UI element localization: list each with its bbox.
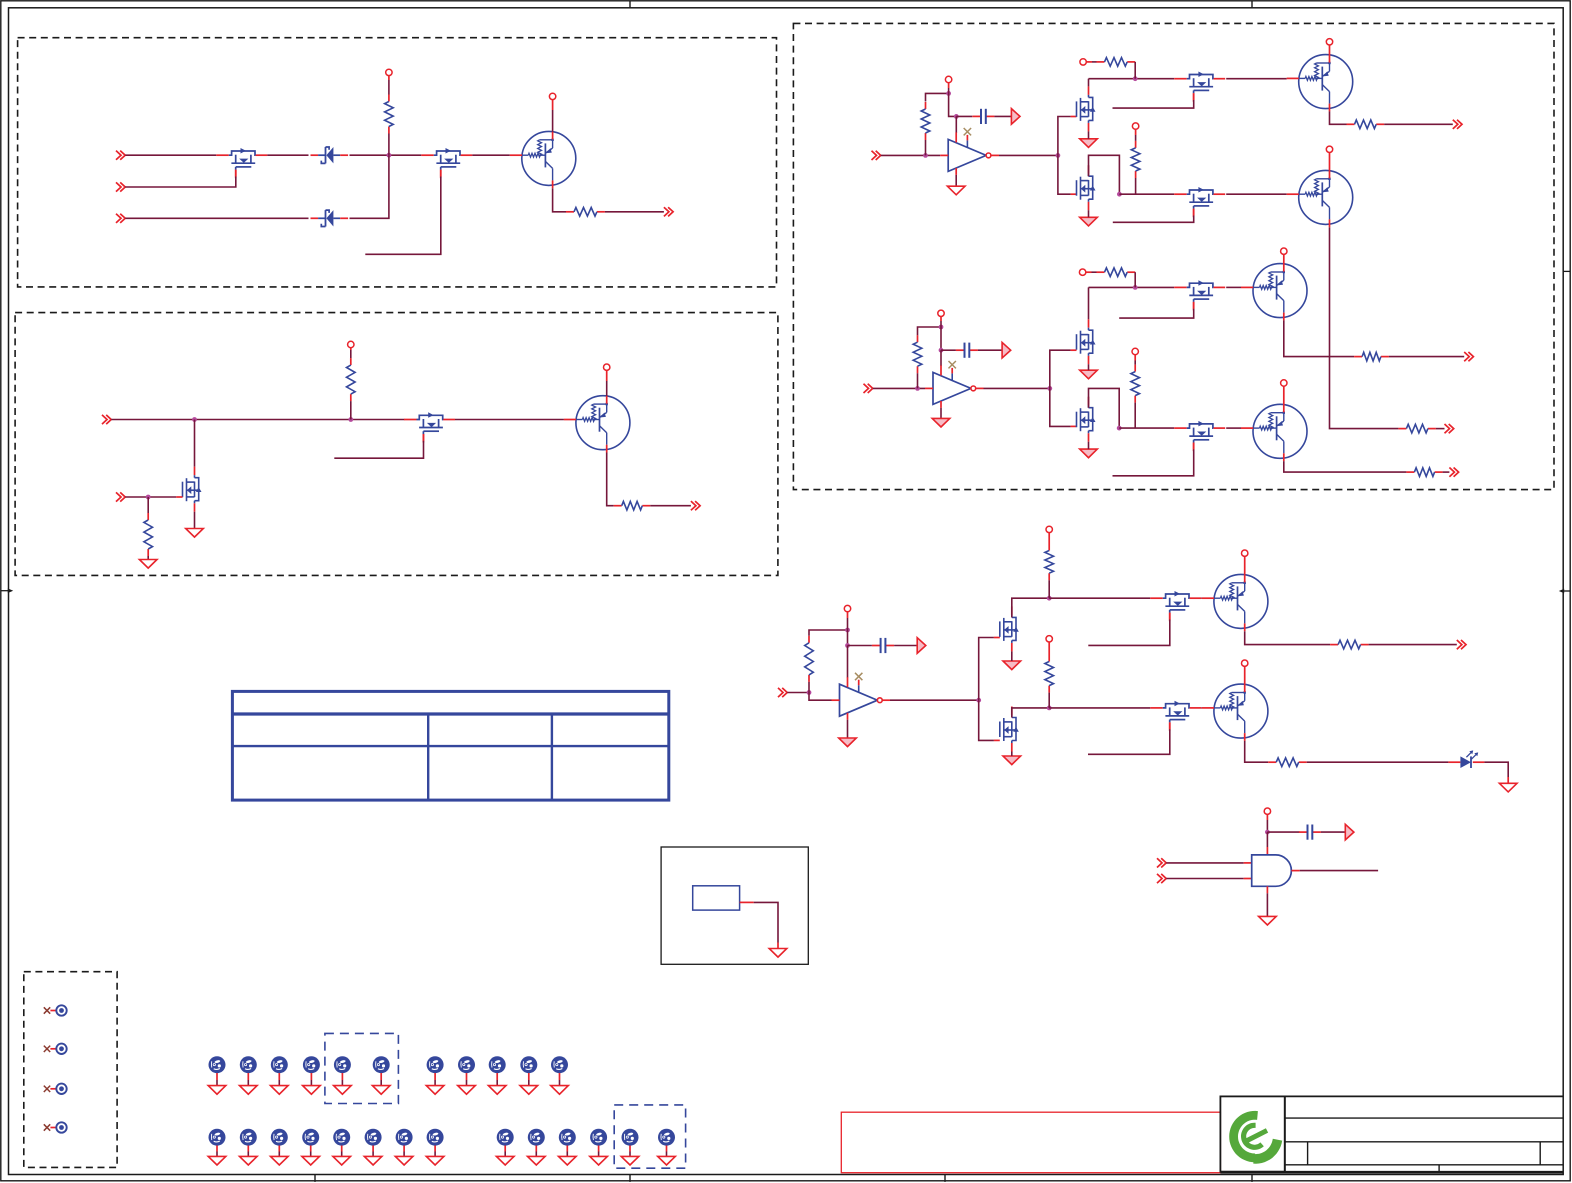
mounting hole MH11: [551, 1056, 568, 1073]
output chevron J2-A: [664, 207, 669, 216]
mounting hole MH17: [365, 1129, 382, 1146]
wire: [1134, 272, 1136, 287]
ground: [1259, 916, 1277, 925]
power arrow VCC: [1011, 109, 1020, 125]
LED D3: [1448, 761, 1460, 763]
table column separator 2: [551, 714, 553, 800]
mounting hole MH4: [303, 1056, 320, 1073]
output chevron J6-A: [1453, 120, 1458, 129]
wire: [1226, 78, 1287, 80]
wire Q8 collector: [1245, 741, 1269, 762]
ground: [496, 1156, 514, 1165]
wire: [918, 327, 942, 335]
mounting hole MH25: [658, 1129, 675, 1146]
ground: [186, 529, 204, 538]
ground: [1080, 370, 1098, 379]
wire M7 gate path: [1058, 155, 1071, 194]
wire: [740, 901, 754, 903]
wire: [808, 682, 810, 693]
node junction: [939, 325, 944, 330]
transistor M1: [216, 154, 229, 156]
wire: [787, 692, 809, 694]
capacitor C2: [941, 349, 956, 351]
wire: [1134, 403, 1136, 429]
wire: [925, 140, 927, 155]
wire: [553, 188, 566, 212]
wire: [552, 110, 554, 132]
node junction: [807, 690, 812, 695]
table column separator 1: [427, 714, 429, 800]
component box outline: [661, 847, 808, 964]
ground: [334, 1086, 352, 1095]
resistor R19: [1330, 644, 1338, 646]
transistor M11: [1088, 397, 1090, 406]
ground: [240, 1086, 258, 1095]
power terminal VCC17: [1046, 636, 1052, 642]
ground: [520, 1086, 538, 1095]
power arrow VCC: [917, 638, 926, 654]
wire: [1011, 752, 1013, 757]
transistor M15: [1150, 707, 1163, 709]
node junction: [192, 417, 197, 422]
output chevron J6-D: [1449, 468, 1454, 477]
dashed box block 3: [793, 23, 1554, 489]
AND gate U4: [1252, 855, 1292, 886]
capacitor C3: [848, 645, 872, 647]
testpoint TP4: [44, 1124, 50, 1130]
node junction: [923, 153, 928, 158]
power terminal VCC16: [1046, 526, 1052, 532]
transistor Q6 digital PNP: [1253, 404, 1307, 458]
mounting hole MH18: [396, 1129, 413, 1146]
input chevron J1-C: [116, 214, 121, 223]
wire: [1088, 364, 1090, 370]
output chevron J6-C: [1464, 352, 1469, 361]
wire: [1226, 286, 1241, 288]
frame tick top 1: [629, 1, 631, 8]
wire: [1135, 178, 1137, 194]
transistor M2: [421, 154, 434, 156]
mounting hole MH10: [520, 1056, 537, 1073]
input chevron J9-B: [1157, 874, 1162, 883]
node junction: [954, 114, 959, 119]
mounting hole MH24: [622, 1129, 639, 1146]
frame fold mark right: [1563, 270, 1570, 272]
wire: [1200, 707, 1203, 709]
input chevron J3-B: [116, 492, 121, 501]
mounting hole MH15: [302, 1129, 319, 1146]
resistor R16: [808, 636, 810, 643]
wire: [605, 211, 664, 213]
wire M1 gate: [235, 170, 237, 177]
wire M9 gate path: [1050, 350, 1071, 388]
wire: [1088, 79, 1090, 87]
frame centering arrow left: [1, 590, 10, 592]
ground: [302, 1156, 320, 1165]
mounting hole MH23: [590, 1129, 607, 1146]
frame centering arrow right: [1563, 590, 1571, 592]
buffer U1: [948, 139, 986, 171]
wire: [926, 93, 949, 101]
wire: [1330, 111, 1347, 124]
table row separator: [232, 745, 668, 747]
ground: [932, 418, 950, 427]
power arrow VCC: [1002, 342, 1011, 358]
power terminal VCC15: [844, 605, 850, 611]
ground: [395, 1156, 413, 1165]
wire: [1134, 361, 1136, 365]
wire M3 gate: [176, 496, 182, 498]
dashed box block 1: [18, 38, 777, 287]
wire: [650, 505, 691, 507]
transistor Q3 digital PNP: [1299, 55, 1353, 109]
power terminal VCC14: [1281, 380, 1287, 386]
wire M11 gate path: [1050, 388, 1071, 426]
node junction: [946, 91, 951, 96]
resistor R2: [566, 211, 574, 213]
wire M5 gate path: [1058, 117, 1071, 156]
frame tick bottom 1: [314, 1175, 316, 1182]
power terminal VCC19: [1242, 660, 1248, 666]
wire M16 gate path: [979, 700, 994, 740]
wire: [125, 496, 176, 498]
wire mid rail 2: [1119, 427, 1174, 429]
wire M13 gate path: [979, 638, 994, 701]
transistor Q1 digital PNP: [522, 131, 576, 185]
transistor Q8 digital PNP: [1214, 684, 1268, 738]
resistor R12: [1097, 271, 1105, 273]
transistor M16: [1011, 707, 1013, 716]
node junction: [1265, 830, 1270, 835]
zener diode D2: [311, 217, 319, 219]
wire: [1389, 356, 1464, 358]
wire: [976, 387, 984, 389]
wire mid rail: [1119, 193, 1174, 195]
wire Q4 collector: [1330, 227, 1399, 428]
ground: [1080, 449, 1098, 458]
input chevron J9-A: [1157, 858, 1162, 867]
ground: [488, 1086, 506, 1095]
wire M7 drain bridge: [1089, 155, 1120, 194]
mounting hole MH13: [240, 1129, 257, 1146]
node junction: [845, 643, 850, 648]
ground: [769, 949, 787, 958]
resistor R18: [1048, 655, 1050, 662]
wire: [881, 154, 940, 156]
wire: [194, 512, 196, 529]
mounting hole MH22: [559, 1129, 576, 1146]
transistor M8: [1174, 193, 1187, 195]
title block grid: [1285, 1095, 1563, 1097]
transistor M5: [1088, 86, 1090, 95]
wire: [1092, 61, 1097, 63]
wire buffer ground: [940, 408, 942, 419]
mounting hole MH8: [458, 1056, 475, 1073]
blue dashed bracket 2: [614, 1105, 685, 1168]
dashed box block 2: [15, 313, 778, 576]
wire: [350, 154, 422, 156]
power terminal VCC18: [1242, 550, 1248, 556]
power terminal VCC10: [938, 310, 944, 316]
power terminal VCC2: [549, 93, 555, 99]
wire: [894, 645, 917, 647]
wire: [455, 419, 564, 421]
node junction: [845, 628, 850, 633]
resistor R4 pull-up: [350, 358, 352, 365]
power terminal VCC9: [1326, 146, 1332, 152]
resistor R6: [925, 102, 927, 109]
wire: [1443, 471, 1450, 473]
resistor R17: [1048, 544, 1050, 551]
resistor R13: [1134, 365, 1136, 372]
wire: [606, 381, 608, 396]
table frame: [232, 691, 668, 800]
ground: [240, 1156, 258, 1165]
testpoint TP3: [44, 1086, 50, 1092]
frame tick bottom 4: [1251, 1175, 1253, 1182]
transistor M14: [1150, 597, 1163, 599]
ground: [271, 1086, 289, 1095]
revision box red: [841, 1112, 1220, 1173]
wire: [1200, 597, 1203, 599]
wire: [1088, 210, 1090, 217]
power terminal VCC3: [348, 341, 354, 347]
wire AND ground: [1266, 886, 1268, 893]
wire top rail: [1089, 78, 1175, 80]
ground: [139, 560, 157, 569]
wire: [1384, 123, 1453, 125]
power terminal VCC13: [1281, 248, 1287, 254]
power terminal VCC6: [1080, 59, 1086, 65]
ground: [1003, 661, 1021, 670]
wire: [1011, 651, 1013, 661]
logo box: [1220, 1096, 1284, 1171]
power terminal VCC8: [1326, 39, 1332, 45]
wire M13 drain bridge: [1012, 598, 1049, 617]
mounting hole MH21: [528, 1129, 545, 1146]
resistor R11: [917, 335, 919, 342]
wire: [978, 349, 1002, 351]
wire: [1088, 442, 1090, 449]
ground: [303, 1086, 321, 1095]
wire buffer power: [847, 646, 849, 678]
wire: [882, 699, 890, 701]
resistor R8: [1135, 141, 1137, 148]
wire Q5 collector: [1284, 320, 1354, 356]
wire AND output: [1291, 870, 1299, 872]
ground: [528, 1156, 546, 1165]
wire M15 gate: [1169, 722, 1171, 729]
transistor M10: [1174, 286, 1187, 288]
ground: [426, 1156, 444, 1165]
wire: [350, 155, 389, 218]
wire: [1226, 193, 1287, 195]
node junction: [915, 386, 920, 391]
wire: [388, 80, 390, 95]
transistor M4: [404, 419, 417, 421]
power terminal VCC11: [1079, 269, 1085, 275]
resistor R3: [147, 513, 149, 520]
transistor M7: [1088, 165, 1090, 174]
ground: [208, 1156, 226, 1165]
input chevron J5-A: [872, 151, 877, 160]
wire: [1134, 62, 1136, 79]
node junction: [1047, 596, 1052, 601]
resistor R1 pull-up: [388, 95, 390, 102]
wire: [1088, 131, 1090, 138]
wire: [994, 115, 1011, 117]
blue dashed bracket 1: [325, 1033, 399, 1103]
wire: [1048, 580, 1050, 598]
wire: [873, 387, 925, 389]
transistor Q4 digital PNP: [1299, 170, 1353, 224]
wire: [267, 154, 308, 156]
frame tick bottom 2: [629, 1175, 631, 1182]
transistor M6: [1174, 78, 1187, 80]
transistor M3: [194, 467, 196, 476]
wire: [350, 401, 352, 419]
buffer U3: [840, 684, 878, 716]
resistor R14: [1354, 356, 1362, 358]
node junction: [1133, 76, 1138, 81]
power terminal VCC1: [386, 69, 392, 75]
table header separator: [232, 712, 668, 715]
ground: [208, 1086, 226, 1095]
ground: [839, 738, 857, 747]
wire: [1135, 135, 1137, 141]
wire AND power: [1266, 832, 1268, 847]
resistor R5: [614, 505, 622, 507]
wire: [809, 630, 848, 636]
wire M2 gate: [440, 170, 442, 177]
wire buffer power: [940, 350, 942, 366]
transistor Q2 digital PNP: [576, 396, 630, 450]
wire M14 gate: [1169, 613, 1171, 620]
mounting hole MH14: [271, 1129, 288, 1146]
transistor Q7 digital PNP: [1214, 574, 1268, 628]
ground: [1080, 139, 1098, 148]
testpoint TP2: [44, 1046, 50, 1052]
input chevron J1-B: [116, 182, 121, 191]
node junction: [1117, 426, 1122, 431]
node junction: [1133, 285, 1138, 290]
mounting hole MH1: [209, 1056, 226, 1073]
wire M4 gate: [423, 434, 425, 441]
transistor M9: [1088, 319, 1090, 328]
resistor R15: [1406, 471, 1414, 473]
zener diode D1: [311, 154, 319, 156]
transistor M12: [1174, 427, 1187, 429]
wire: [111, 419, 404, 421]
wire: [1321, 831, 1345, 833]
wire buffer ground: [955, 175, 957, 186]
wire M12 gate: [1193, 443, 1195, 450]
wire M6 gate: [1193, 93, 1195, 100]
ground: [621, 1156, 639, 1165]
frame tick top 2: [1251, 1, 1253, 8]
wire: [809, 693, 832, 701]
wire: [388, 134, 390, 156]
mounting hole MH6: [373, 1056, 390, 1073]
wire M11 drain bridge: [1089, 388, 1120, 428]
company logo: [1234, 1115, 1258, 1158]
wire rail 3b: [1049, 707, 1150, 709]
wire: [917, 373, 919, 388]
resistor R10: [1398, 428, 1406, 430]
ground: [947, 186, 965, 195]
wire: [847, 630, 849, 646]
ground: [372, 1086, 390, 1095]
wire: [1226, 427, 1241, 429]
wire: [1307, 761, 1449, 763]
wire rail 3a: [1049, 597, 1150, 599]
wire: [940, 327, 942, 350]
resistor R7: [1097, 61, 1105, 63]
output chevron J8-A: [1457, 640, 1462, 649]
output chevron J6-B: [1445, 424, 1450, 433]
node junction: [939, 348, 944, 353]
ground: [559, 1156, 577, 1165]
wire: [1369, 644, 1457, 646]
ground: [658, 1156, 676, 1165]
wire: [194, 420, 196, 467]
ground: [1499, 783, 1517, 792]
node junction: [1056, 153, 1061, 158]
wire M16 drain bridge: [1012, 708, 1049, 718]
power terminal VCC5: [945, 76, 951, 82]
ground: [271, 1156, 289, 1165]
node junction: [1047, 706, 1052, 711]
wire Q6 collector: [1284, 461, 1407, 472]
wire: [147, 497, 149, 513]
node junction: [146, 495, 151, 500]
output chevron J4-A: [691, 501, 696, 510]
mounting hole MH9: [489, 1056, 506, 1073]
wire: [125, 217, 308, 219]
wire: [125, 154, 216, 156]
mounting hole MH3: [271, 1056, 288, 1073]
resistor R9: [1347, 123, 1355, 125]
wire: [991, 154, 999, 156]
wire: [1266, 820, 1268, 832]
ground: [333, 1156, 351, 1165]
wire: [472, 154, 510, 156]
mounting hole MH5: [334, 1056, 351, 1073]
ground: [1003, 756, 1021, 765]
wire: [1092, 271, 1097, 273]
node junction: [1117, 192, 1122, 197]
ground: [551, 1086, 569, 1095]
wire: [1484, 762, 1508, 777]
wire M10 gate: [1193, 302, 1195, 309]
input chevron J7-A: [778, 688, 783, 697]
ground: [1080, 217, 1098, 226]
node junction: [348, 417, 353, 422]
node junction: [1047, 386, 1052, 391]
wire buffer power: [955, 116, 957, 133]
ground: [590, 1156, 608, 1165]
mounting hole MH20: [497, 1129, 514, 1146]
resistor R20: [1268, 761, 1276, 763]
dashed box testpoint group: [24, 972, 117, 1168]
ground: [364, 1156, 382, 1165]
transistor M13: [1011, 606, 1013, 615]
power arrow VCC: [1345, 824, 1354, 840]
power terminal VCC12: [1132, 348, 1138, 354]
wire M8 gate: [1193, 209, 1195, 216]
mounting hole MH19: [427, 1129, 444, 1146]
mounting hole MH2: [240, 1056, 257, 1073]
